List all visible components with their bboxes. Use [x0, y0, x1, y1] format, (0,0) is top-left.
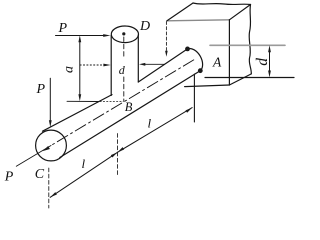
dim a bottom arrowhead — [78, 94, 81, 101]
post right side — [137, 35, 139, 82]
dim l arrowhead at wall end — [186, 108, 193, 113]
svg-text:P: P — [4, 170, 14, 185]
svg-text:A: A — [212, 54, 222, 69]
rod axis dash-dot — [51, 60, 194, 146]
wall top right edge — [229, 5, 250, 20]
dim l extension at C (dashed) — [48, 168, 50, 208]
dim a line — [79, 39, 81, 98]
svg-text:a: a — [61, 66, 76, 73]
wall entry arc — [188, 48, 203, 70]
dim d wall: gray upper extension — [210, 44, 285, 46]
svg-text:B: B — [125, 100, 133, 114]
rod axis extension to P — [16, 146, 51, 167]
wall front right edge — [228, 20, 230, 85]
svg-text:l: l — [148, 115, 152, 130]
entry top dot — [185, 47, 190, 52]
svg-text:P: P — [58, 21, 68, 36]
rod upper edge (right of post) — [138, 49, 187, 82]
dim l arrowhead at C end — [50, 192, 57, 197]
dim d post right arrowhead — [139, 63, 145, 66]
dim d post right leader — [144, 63, 165, 65]
dim l arrowheads at middle — [111, 152, 118, 157]
wall front bottom edge — [185, 85, 230, 87]
entry bottom dot — [198, 68, 203, 73]
rod lower edge — [60, 71, 200, 158]
force P top line — [56, 35, 108, 37]
svg-text:D: D — [139, 19, 150, 34]
dim l extension middle (dashed) — [117, 134, 119, 176]
dim d post left leader (dotted) — [80, 64, 106, 66]
post top ellipse — [111, 26, 138, 43]
dim l extension at wall — [193, 74, 195, 122]
svg-text:d: d — [254, 58, 271, 66]
dim d wall: lower extension — [205, 77, 294, 79]
svg-text:C: C — [35, 167, 45, 182]
post left side — [110, 36, 112, 96]
svg-text:d: d — [119, 63, 126, 77]
dim d post left arrowhead — [103, 64, 110, 67]
dim l line segment 1 — [50, 152, 117, 197]
wall torn right edge — [249, 5, 251, 74]
dim d wall: bottom arrowhead — [268, 71, 271, 78]
axial force P arrowhead — [43, 146, 50, 151]
dim a bottom tick — [67, 100, 99, 102]
wall top back wavy edge — [193, 3, 251, 5]
rod upper edge (left of post) — [43, 95, 113, 132]
dim l line segment 2 — [118, 108, 193, 153]
rod end circle — [36, 130, 67, 161]
svg-text:P: P — [36, 82, 46, 97]
wall top face left edge — [167, 3, 193, 21]
post center dot D — [122, 32, 125, 35]
wall front left hidden edge (dashed) — [165, 22, 167, 52]
wall front top edge — [167, 20, 229, 21]
wall bottom-right receding edge — [229, 74, 251, 85]
post center dashed line — [123, 37, 125, 101]
dim d wall: vertical line — [269, 49, 271, 74]
dim a top arrowhead — [78, 35, 81, 42]
arrowhead down at wall left edge — [165, 51, 168, 57]
force P left arrowhead — [49, 120, 52, 127]
svg-text:l: l — [82, 156, 86, 171]
force P left line — [49, 78, 51, 122]
dim d wall: top arrowhead — [268, 45, 271, 52]
force P top arrowhead — [103, 34, 110, 37]
